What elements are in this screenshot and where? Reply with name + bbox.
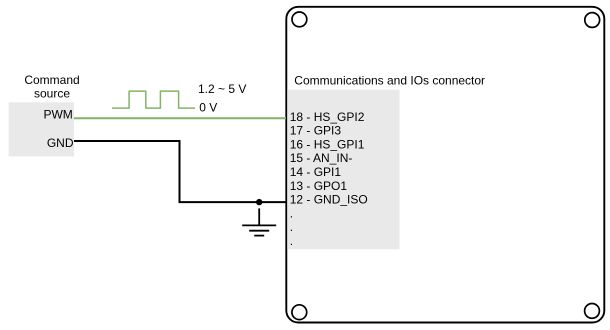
svg-text:Command: Command xyxy=(24,73,79,87)
mounting hole bottom-left xyxy=(292,305,307,320)
svg-text:12 - GND_ISO: 12 - GND_ISO xyxy=(290,193,368,207)
svg-text:14 - GPI1: 14 - GPI1 xyxy=(290,165,342,179)
controller box (Communications and IOs connector module) xyxy=(286,7,604,323)
svg-text:0 V: 0 V xyxy=(199,100,217,114)
svg-text:.: . xyxy=(290,234,293,248)
svg-text:18 - HS_GPI2: 18 - HS_GPI2 xyxy=(290,110,365,124)
svg-text:13 - GPO1: 13 - GPO1 xyxy=(290,179,348,193)
ground symbol xyxy=(242,208,276,235)
svg-text:GND: GND xyxy=(47,136,74,150)
mounting hole bottom-right xyxy=(585,304,600,319)
svg-text:.: . xyxy=(290,206,293,220)
wire: GND from command source to pin 12 xyxy=(74,141,286,202)
svg-text:16 - HS_GPI1: 16 - HS_GPI1 xyxy=(290,137,365,151)
svg-text:Communications and IOs connect: Communications and IOs connector xyxy=(294,74,485,88)
command source box xyxy=(9,102,74,156)
pin list box xyxy=(287,90,399,250)
junction dot on GND wire xyxy=(256,199,262,205)
svg-text:PWM: PWM xyxy=(43,108,72,122)
mounting hole top-right xyxy=(585,13,600,28)
svg-text:15 - AN_IN-: 15 - AN_IN- xyxy=(290,151,353,165)
svg-text:1.2 ~ 5 V: 1.2 ~ 5 V xyxy=(198,82,246,96)
wire: PWM signal (green) from command source to pin 18 xyxy=(74,117,286,119)
mounting hole top-left xyxy=(292,12,307,27)
PWM square-wave symbol xyxy=(112,91,195,108)
svg-text:.: . xyxy=(290,220,293,234)
svg-text:source: source xyxy=(34,87,70,101)
svg-text:17 - GPI3: 17 - GPI3 xyxy=(290,124,342,138)
label: Command source xyxy=(24,73,79,101)
